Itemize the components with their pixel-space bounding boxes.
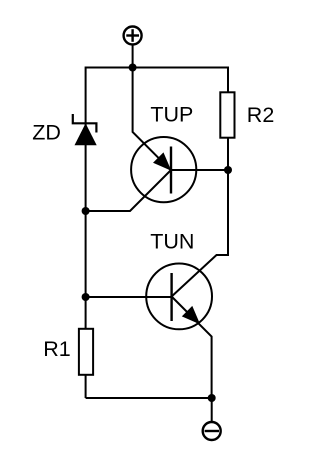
- transistor TUP base bar: [170, 147, 172, 194]
- transistor TUP body: [131, 137, 196, 202]
- wire left vertical bus: [85, 67, 87, 399]
- junction node at R2 bottom / TUP base: [224, 166, 232, 174]
- plus supply terminal: [124, 27, 142, 45]
- transistor TUP emitter arrow: [154, 153, 171, 170]
- junction node at bottom rail: [208, 394, 216, 402]
- svg-text:ZD: ZD: [32, 120, 61, 144]
- transistor TUN base bar: [170, 273, 172, 321]
- wire TUP emitter: [133, 68, 171, 171]
- junction node at TUP collector / left bus: [82, 207, 90, 215]
- resistor R1: [79, 329, 93, 375]
- wire R2 branch: [227, 67, 229, 172]
- zener diode ZD cathode bar: [73, 114, 97, 133]
- resistor R2: [220, 92, 234, 137]
- transistor TUN emitter arrow: [183, 307, 200, 324]
- transistor TUN body: [146, 264, 212, 330]
- wire TUP base lead: [171, 169, 228, 171]
- wire positive terminal drop: [132, 45, 134, 69]
- wire TUP collector: [86, 170, 171, 211]
- wire TUN emitter: [172, 297, 212, 399]
- wire top rail: [86, 67, 228, 69]
- wire negative terminal drop: [211, 397, 213, 422]
- svg-text:R2: R2: [247, 103, 274, 127]
- wire bottom rail: [86, 397, 212, 399]
- junction node at TUN base / left bus: [82, 293, 90, 301]
- svg-text:TUN: TUN: [150, 229, 194, 253]
- svg-text:TUP: TUP: [150, 103, 193, 127]
- wire TUN base lead: [86, 296, 172, 298]
- minus supply terminal: [203, 422, 221, 440]
- wire TUN collector: [172, 170, 228, 297]
- junction node at positive rail: [129, 64, 137, 72]
- zener diode ZD anode triangle: [75, 123, 97, 145]
- svg-text:R1: R1: [43, 337, 70, 361]
